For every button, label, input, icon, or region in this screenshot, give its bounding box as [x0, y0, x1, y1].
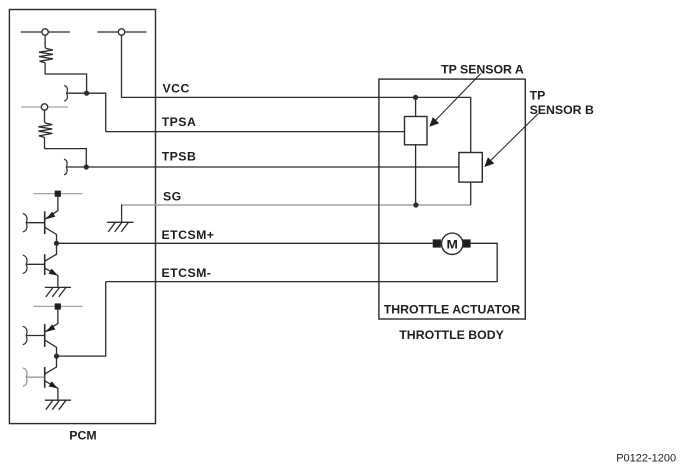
svg-text:ETCSM-: ETCSM-: [162, 266, 212, 280]
motor M brush left: [433, 239, 441, 247]
wire node TPSA jog: [87, 93, 106, 131]
junction node TPSB: [84, 164, 89, 169]
svg-text:SENSOR B: SENSOR B: [530, 103, 594, 117]
transistor Q4 emitter wire: [45, 381, 58, 400]
motor M circle: [442, 233, 463, 254]
svg-text:ETCSM+: ETCSM+: [162, 228, 215, 242]
wire Q3 base: [26, 335, 45, 337]
terminal T1 (top-left): [21, 29, 70, 35]
wire node ETCSM- to line: [57, 282, 106, 357]
transistor Q2 emitter wire: [45, 268, 58, 287]
wire Q1 base: [26, 222, 45, 224]
wire TPSA line: [106, 131, 405, 133]
power terminal square 1: [55, 191, 61, 197]
junction SG: [413, 202, 418, 207]
svg-text:SG: SG: [163, 190, 182, 204]
transistor Q3 (PNP) emitter wire: [46, 310, 58, 332]
wire Q2 base: [26, 263, 45, 265]
power rail 2: [33, 305, 82, 307]
junction VCC: [413, 95, 418, 100]
svg-text:M: M: [447, 238, 458, 252]
power rail 1: [33, 193, 82, 195]
connector arc (Q2 base pin): [23, 255, 27, 273]
terminal T3 (second pull-up): [21, 104, 68, 110]
ground G3 (Q4 emitter): [45, 400, 71, 410]
wire ETCSM- line: [106, 243, 498, 281]
wire connector to node TPSA: [67, 92, 87, 94]
wire TP sensor B to SG: [470, 182, 472, 205]
svg-text:TPSA: TPSA: [162, 115, 197, 129]
transistor Q2 (NPN) collector wire: [45, 243, 56, 261]
svg-text:PCM: PCM: [69, 429, 96, 443]
svg-text:VCC: VCC: [163, 82, 190, 96]
wire VCC: [122, 36, 471, 153]
svg-text:TP: TP: [530, 89, 546, 103]
connector arc (Q3 base pin): [23, 326, 27, 344]
wire SG line: [122, 204, 471, 206]
ground G1 (SG): [107, 204, 133, 232]
terminal T2 (top-right): [97, 29, 146, 35]
wire TP sensor A to SG: [415, 145, 417, 205]
wire R1 to node TPSA: [45, 63, 87, 93]
svg-text:THROTTLE BODY: THROTTLE BODY: [399, 328, 504, 342]
resistor R2: [38, 122, 52, 137]
transistor Q1 emitter arrow: [46, 212, 56, 220]
wire T3 to resistor R2: [44, 111, 46, 123]
transistor Q1 (PNP) emitter wire: [46, 197, 58, 219]
wire ETCSM+ line: [57, 242, 433, 244]
transistor Q4 (NPN) collector wire: [45, 356, 56, 374]
transistor Q4 emitter arrow: [49, 381, 58, 388]
arrow to TP sensor B: [488, 114, 539, 164]
transistor Q1 bar: [44, 211, 46, 234]
wire Q4 base: [26, 376, 45, 378]
TP sensor B box: [459, 153, 482, 183]
transistor Q3 emitter arrow: [46, 324, 56, 332]
connector arc (TPSB pin): [64, 159, 67, 175]
wire TPSB line: [86, 166, 459, 168]
transistor Q2 emitter arrow: [49, 269, 58, 276]
wire T1 to resistor R1: [44, 36, 46, 48]
svg-text:P0122-1200: P0122-1200: [616, 453, 676, 465]
resistor R1: [39, 48, 53, 63]
TP sensor A box: [405, 117, 428, 145]
junction node ETCSM-: [54, 354, 59, 359]
transistor Q3 bar: [44, 324, 46, 347]
transistor Q4 bar: [44, 367, 46, 388]
connector arc (Q1 base pin): [23, 214, 27, 232]
wire VCC to TP sensor A: [415, 97, 417, 116]
transistor Q3 collector wire: [45, 340, 56, 356]
transistor Q1 collector wire: [45, 228, 56, 244]
svg-text:TP SENSOR A: TP SENSOR A: [441, 63, 524, 77]
arrow to TP sensor A: [433, 74, 481, 124]
connector arc (TPSA pin): [64, 85, 67, 101]
junction node TPSA: [84, 91, 89, 96]
motor M brush right: [462, 239, 470, 247]
PCM box: [9, 10, 155, 424]
connector arc (Q4 base pin): [23, 368, 27, 386]
junction node ETCSM+: [54, 241, 59, 246]
wire R2 to node TPSB: [45, 137, 87, 167]
power terminal square 2: [55, 303, 61, 309]
transistor Q2 bar: [44, 254, 46, 275]
svg-text:THROTTLE ACTUATOR: THROTTLE ACTUATOR: [384, 303, 521, 317]
svg-text:TPSB: TPSB: [162, 149, 197, 163]
ground G2 (Q2 emitter): [45, 287, 71, 297]
wire connector to node TPSB: [66, 166, 86, 168]
throttle body box: [379, 79, 525, 319]
